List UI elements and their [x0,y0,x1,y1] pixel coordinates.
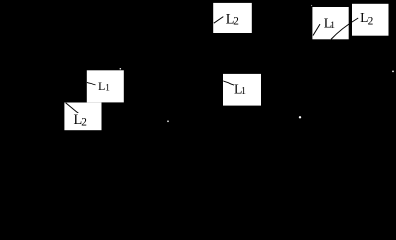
leader line to L1 (middle panel) [223,81,234,85]
label box L1 (left panel) [87,70,124,102]
label box L1 (right panel) [312,7,348,39]
svg-text:1: 1 [105,82,110,92]
label box L2 (right panel) [352,4,389,36]
svg-text:L: L [98,79,105,93]
faint speck near right L1 box corner [311,5,312,6]
leader line to L2 (middle panel) [214,17,224,24]
leader line to L2 (left panel) [66,103,79,113]
label box L1 (middle panel) [223,74,261,106]
speck right edge [392,71,394,73]
leader line to L2 (right panel) [331,18,358,39]
svg-text:1: 1 [330,20,335,31]
speck below right panel [299,116,301,118]
speck lower middle [167,120,169,122]
leader line to L1 (right panel) [313,24,320,35]
label box L2 (middle panel) [213,3,252,33]
svg-text:2: 2 [233,16,239,28]
speck near left L1 box top edge [120,68,122,70]
svg-text:1: 1 [241,86,246,97]
leader line to L1 (left panel) [87,82,96,84]
svg-text:2: 2 [368,16,374,28]
svg-text:2: 2 [81,117,87,129]
label box L2 (left panel) [64,103,101,131]
